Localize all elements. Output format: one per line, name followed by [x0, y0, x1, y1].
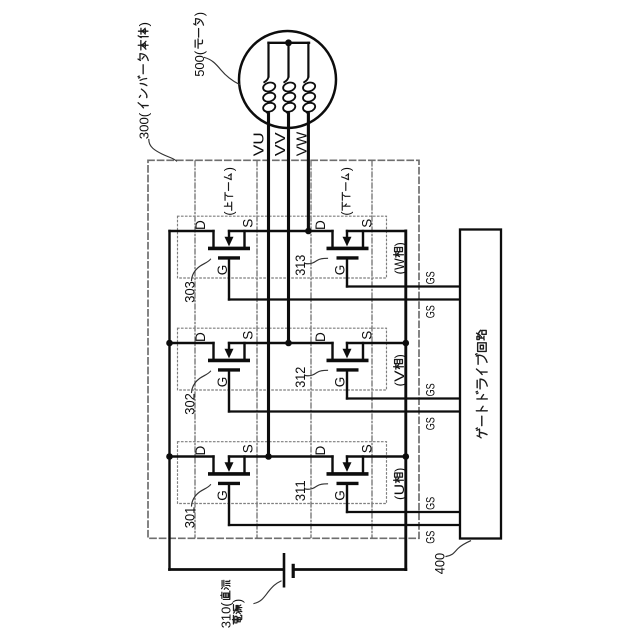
svg-text:V: V — [392, 370, 407, 382]
svg-text:311: 311 — [293, 480, 308, 501]
svg-text:): ) — [192, 12, 207, 16]
wire D drop lower-arm — [331, 343, 333, 360]
wire S drop upper-arm — [243, 457, 245, 474]
motor winding coil — [284, 76, 288, 82]
leader 312 — [306, 370, 328, 375]
pin label D upper-arm — [193, 446, 208, 456]
wire negative rail right — [404, 231, 407, 570]
upper-arm column dash-dot box — [194, 161, 196, 538]
leader 400 — [446, 541, 471, 557]
wire gate drop upper-arm — [228, 485, 230, 525]
leader 500 — [205, 58, 240, 85]
wire source to negative rail — [347, 455, 406, 457]
svg-text:D: D — [193, 220, 208, 230]
pin label S lower-arm — [359, 331, 374, 340]
battery 310 negative plate — [292, 564, 295, 578]
pin label G lower-arm — [332, 377, 347, 388]
wire D drop lower-arm — [331, 231, 333, 248]
node left rail U row — [166, 453, 173, 460]
inverter outer dashed box 300 — [148, 160, 419, 538]
label 311 — [293, 480, 308, 501]
leader 301 — [192, 485, 211, 506]
svg-text:GS: GS — [423, 305, 437, 318]
svg-text:D: D — [313, 220, 328, 230]
wire GS line lower-arm — [347, 397, 460, 399]
svg-text:GS: GS — [423, 271, 437, 284]
svg-text:G: G — [215, 490, 230, 501]
label 310 (DC power) line2 — [230, 599, 245, 624]
transistor 312 source arrow — [346, 343, 348, 349]
pin label D lower-arm — [313, 332, 328, 342]
leader 313 — [306, 258, 328, 263]
svg-text:D: D — [193, 446, 208, 456]
label 300 (inverter body) — [137, 22, 152, 139]
transistor 311 lower-arm MOSFET channel — [327, 472, 369, 476]
pin label D upper-arm — [193, 220, 208, 230]
label GS lower-arm line — [423, 271, 437, 284]
wire gate drop lower-arm — [346, 485, 348, 512]
svg-text:GS: GS — [423, 497, 437, 510]
transistor 301 upper-arm MOSFET channel — [208, 472, 250, 476]
phase row dotted box — [178, 216, 387, 278]
svg-text:): ) — [230, 599, 245, 603]
svg-text:VV: VV — [272, 132, 289, 156]
phase row dotted box — [178, 328, 387, 390]
leader 310 — [254, 581, 281, 604]
wire GS line upper-arm — [229, 298, 460, 300]
wire D drop upper-arm — [212, 343, 214, 360]
wire row drain feed upper-arm — [170, 455, 214, 457]
leader 303 — [192, 259, 211, 280]
pin label G upper-arm — [215, 377, 230, 388]
pin label S lower-arm — [359, 219, 374, 228]
transistor 301 gate plate — [218, 482, 240, 485]
svg-text:500(: 500( — [192, 50, 207, 77]
label (lower arm) — [340, 167, 354, 216]
wire gate drop lower-arm — [346, 259, 348, 286]
transistor 312 lower-arm MOSFET channel — [327, 359, 369, 363]
transistor 313 gate plate — [337, 256, 359, 259]
svg-text:S: S — [359, 219, 374, 228]
svg-text:): ) — [222, 167, 236, 171]
label 313 — [293, 255, 308, 276]
svg-text:VU: VU — [251, 132, 268, 156]
motor winding coil — [264, 76, 268, 82]
wire motor lead upper — [287, 43, 289, 77]
wire row drain feed upper-arm — [170, 342, 214, 344]
transistor 303 upper-arm MOSFET channel — [208, 247, 250, 251]
wire S drop upper-arm — [243, 343, 245, 360]
pin label S lower-arm — [359, 444, 374, 453]
svg-text:D: D — [313, 332, 328, 342]
wire source to negative rail — [347, 230, 406, 232]
svg-text:G: G — [215, 377, 230, 388]
label GS upper-arm line — [423, 417, 437, 430]
transistor 303 gate plate — [218, 256, 240, 259]
svg-text:S: S — [240, 331, 255, 340]
svg-text:S: S — [240, 219, 255, 228]
label 312 — [293, 367, 308, 388]
leader 300 — [149, 140, 177, 162]
label 500 (motor) — [192, 12, 207, 77]
svg-text:303: 303 — [182, 281, 197, 303]
label 302 — [182, 393, 197, 415]
pin label D lower-arm — [313, 446, 328, 456]
lower-arm column dash-dot box — [310, 161, 312, 538]
pin label G lower-arm — [332, 490, 347, 501]
wire S drop lower-arm — [362, 457, 364, 474]
svg-text:302: 302 — [182, 393, 197, 415]
node U phase junction — [265, 453, 272, 460]
wire source to phase node — [229, 342, 333, 344]
wire GS line upper-arm — [229, 524, 460, 526]
wire S drop lower-arm — [362, 343, 364, 360]
wire VW phase — [307, 114, 310, 231]
svg-text:G: G — [332, 265, 347, 276]
wire source to phase node — [229, 230, 333, 232]
wire D drop lower-arm — [331, 457, 333, 474]
svg-text:U: U — [392, 484, 407, 496]
wire row drain feed upper-arm — [170, 230, 214, 232]
pin label G upper-arm — [215, 490, 230, 501]
gate drive circuit 400 box — [460, 230, 501, 539]
wire gate drop lower-arm — [346, 371, 348, 398]
wire VV phase — [287, 114, 290, 343]
label VV — [272, 132, 289, 156]
svg-text:): ) — [340, 167, 354, 171]
label (V-phase) — [392, 354, 407, 386]
label gate drive circuit text — [476, 330, 488, 438]
wire D drop upper-arm — [212, 231, 214, 248]
svg-text:S: S — [359, 444, 374, 453]
node right rail U row — [403, 453, 410, 460]
wire source to phase node — [229, 455, 333, 457]
svg-text:312: 312 — [293, 367, 308, 388]
wire bottom rail right segment — [295, 568, 406, 571]
transistor 311 gate plate — [337, 482, 359, 485]
svg-text:): ) — [392, 242, 407, 246]
label 310 (DC power) line1 — [219, 580, 234, 628]
node motor neutral junction — [285, 39, 292, 46]
svg-text:S: S — [240, 444, 255, 453]
label (upper arm) — [222, 167, 236, 216]
svg-text:G: G — [332, 377, 347, 388]
svg-text:D: D — [193, 332, 208, 342]
transistor 302 gate plate — [218, 368, 240, 371]
wire source to negative rail — [347, 342, 406, 344]
node left rail V row — [166, 340, 173, 347]
transistor 303 source arrow — [228, 231, 230, 237]
node V phase junction — [285, 340, 292, 347]
svg-text:GS: GS — [423, 383, 437, 396]
svg-text:VW: VW — [294, 131, 311, 156]
svg-text:G: G — [215, 265, 230, 276]
node W phase junction — [305, 228, 312, 235]
label VW — [294, 131, 311, 156]
pin label G lower-arm — [332, 265, 347, 276]
wire GS line upper-arm — [229, 410, 460, 412]
transistor 311 source arrow — [346, 457, 348, 463]
transistor 302 source arrow — [228, 343, 230, 349]
leader 311 — [306, 484, 328, 489]
svg-text:G: G — [332, 490, 347, 501]
label GS lower-arm line — [423, 497, 437, 510]
pin label D upper-arm — [193, 332, 208, 342]
pin label D lower-arm — [313, 220, 328, 230]
svg-text:): ) — [392, 468, 407, 472]
svg-text:400: 400 — [432, 552, 447, 574]
node right rail V row — [403, 340, 410, 347]
svg-text:GS: GS — [423, 417, 437, 430]
svg-text:GS: GS — [423, 531, 437, 544]
pin label S upper-arm — [240, 331, 255, 340]
wire bottom rail left segment — [170, 568, 283, 571]
label (W-phase) — [392, 242, 407, 274]
svg-text:): ) — [392, 354, 407, 358]
wire GS line lower-arm — [347, 285, 460, 287]
label GS upper-arm line — [423, 305, 437, 318]
wire positive rail left — [168, 231, 170, 570]
wire motor lead upper — [267, 43, 269, 77]
svg-text:301: 301 — [182, 507, 197, 529]
transistor 313 source arrow — [346, 231, 348, 237]
label 303 — [182, 281, 197, 303]
transistor 312 gate plate — [337, 368, 359, 371]
wire D drop upper-arm — [212, 457, 214, 474]
label VU — [251, 132, 268, 156]
wire GS line lower-arm — [347, 511, 460, 513]
wire gate drop upper-arm — [228, 371, 230, 411]
motor 500 circle — [239, 31, 336, 128]
svg-text:300(: 300( — [137, 112, 152, 139]
label (U-phase) — [392, 468, 407, 500]
label GS lower-arm line — [423, 383, 437, 396]
wire S drop lower-arm — [362, 231, 364, 248]
svg-text:W: W — [392, 258, 407, 270]
svg-text:310(: 310( — [219, 602, 234, 629]
svg-text:S: S — [359, 331, 374, 340]
transistor 302 upper-arm MOSFET channel — [208, 359, 250, 363]
svg-text:): ) — [137, 22, 152, 26]
pin label S upper-arm — [240, 444, 255, 453]
motor winding coil — [304, 76, 308, 82]
wire VU phase — [267, 114, 270, 457]
label GS upper-arm line — [423, 531, 437, 544]
wire motor lead upper — [307, 43, 309, 77]
wire gate drop upper-arm — [228, 259, 230, 299]
wire motor star top bar — [269, 42, 310, 44]
pin label G upper-arm — [215, 265, 230, 276]
label 400 — [432, 552, 447, 574]
phase row dotted box — [178, 442, 387, 504]
svg-text:D: D — [313, 446, 328, 456]
label 301 — [182, 507, 197, 529]
svg-text:313: 313 — [293, 255, 308, 276]
battery 310 positive plate — [283, 553, 286, 588]
transistor 301 source arrow — [228, 457, 230, 463]
leader 302 — [192, 371, 211, 392]
transistor 313 lower-arm MOSFET channel — [327, 247, 369, 251]
wire S drop upper-arm — [243, 231, 245, 248]
pin label S upper-arm — [240, 219, 255, 228]
